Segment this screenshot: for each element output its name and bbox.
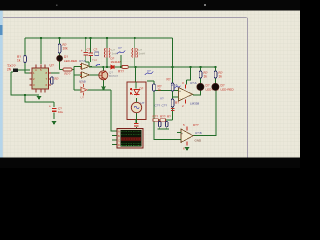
svg-text:LED-RED: LED-RED [64,59,78,63]
svg-text:U?: U? [81,96,85,100]
svg-text:-: - [181,139,182,143]
svg-text:1N4148: 1N4148 [111,60,122,64]
svg-text:R??: R?? [153,115,159,119]
svg-text:B: B [118,134,120,138]
svg-text:U?:A: U?:A [190,81,197,85]
svg-text:8.8: 8.8 [80,81,84,85]
svg-text:1mH: 1mH [139,52,145,56]
svg-text:2N: 2N [7,68,12,72]
svg-text:TL0: TL0 [92,58,98,62]
svg-text:U?: U? [50,64,54,68]
svg-text:C?: C? [87,48,91,52]
svg-text:U?: U? [141,101,145,105]
svg-text:R?: R? [55,77,59,81]
svg-text:R?: R? [167,78,171,82]
svg-text:GND: GND [195,139,203,143]
svg-text:D: D [118,143,120,147]
svg-text:+: + [181,132,183,136]
svg-text:LM358: LM358 [190,102,200,106]
svg-text:1k: 1k [204,75,208,79]
svg-text:V?: V? [160,97,164,101]
svg-text:+: + [81,49,83,53]
svg-text:C?: C? [94,48,98,52]
svg-text:V?: V? [118,46,122,50]
svg-text:1k: 1k [17,59,21,63]
svg-text:10u: 10u [58,110,63,114]
svg-text:R??: R?? [65,72,71,76]
svg-text:LED-RED: LED-RED [221,87,235,91]
svg-text:D??: D?? [193,123,199,127]
svg-text:+: + [49,105,51,109]
svg-text:U?:A: U?:A [79,59,86,63]
svg-text:10k: 10k [63,47,69,51]
svg-text:U?:B: U?:B [195,131,202,135]
svg-text:R?: R? [167,115,171,119]
svg-text:C??: C?? [155,104,161,108]
svg-text:1k: 1k [158,88,162,92]
svg-text:C??: C?? [162,104,168,108]
svg-text:D?: D? [140,87,144,91]
svg-text:R??: R?? [160,115,166,119]
svg-text:BC547: BC547 [109,74,119,78]
svg-text:V?: V? [147,69,151,73]
svg-text:A: A [118,129,120,133]
svg-text:+: + [179,89,181,93]
svg-text:-: - [179,96,180,100]
svg-text:R?: R? [175,101,179,105]
svg-text:C: C [118,138,120,142]
svg-text:R??: R?? [118,70,124,74]
svg-text:1k: 1k [219,75,223,79]
